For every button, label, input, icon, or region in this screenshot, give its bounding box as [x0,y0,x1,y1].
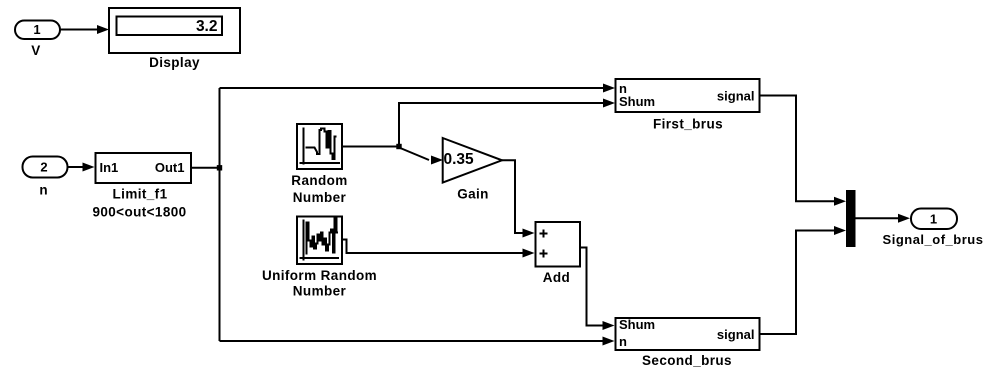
wire trunk to Second_brus n [220,340,604,342]
svg-text:Shum: Shum [619,317,655,332]
wire Uniform Random to Add input 2 [342,240,523,254]
wire trunk to First_brus n [220,87,604,89]
svg-text:Limit_f1: Limit_f1 [113,187,168,202]
block Uniform Random Number [297,217,342,265]
uniform random icon axes [300,220,340,261]
block Random Number [297,124,342,169]
node junction trunk [217,165,222,170]
svg-text:n: n [39,183,48,198]
svg-text:Uniform Random: Uniform Random [262,268,377,283]
wire mux to output port [856,217,899,219]
svg-text:1: 1 [930,212,937,227]
wire V to Display [60,29,98,31]
wire Gain to Add input 1 [502,160,523,233]
svg-text:1: 1 [33,22,40,37]
svg-text:In1: In1 [100,160,119,175]
gain block (0.35 triangle) [443,138,502,183]
svg-text:Signal_of_brus: Signal_of_brus [883,232,984,247]
display block [109,8,240,53]
adder Add [536,222,581,267]
subsystem First_brus [616,79,760,112]
subsystem Limit_f1 [96,153,192,183]
svg-text:2: 2 [40,160,47,175]
wire Limit_f1 out to trunk junction [191,167,220,169]
wire junction diagonal to Gain [399,148,429,161]
svg-text:Second_brus: Second_brus [642,353,732,368]
mux bar [846,190,856,247]
random number icon waveform [306,129,337,160]
svg-text:Out1: Out1 [155,160,185,175]
svg-text:V: V [31,43,40,58]
svg-text:First_brus: First_brus [653,117,723,132]
svg-text:Display: Display [149,55,200,70]
node junction shum [396,144,401,149]
svg-text:signal: signal [717,327,755,342]
wire Second_brus signal to mux [760,231,835,335]
svg-text:3.2: 3.2 [196,18,218,35]
wire n to Limit_f1 [68,166,84,168]
wire First_brus signal to mux [760,96,835,202]
input port 2 (n) [23,157,68,178]
svg-text:900<out<1800: 900<out<1800 [92,205,186,220]
svg-text:0.35: 0.35 [444,151,475,168]
wire Add to Second_brus Shum [580,248,603,326]
wire trunk vertical [219,88,221,341]
plus sign 1 [540,230,548,238]
plus sign 2 [540,250,548,258]
svg-text:signal: signal [717,89,755,104]
input port 1 (V) [15,21,60,40]
svg-text:Gain: Gain [457,186,489,201]
svg-text:Add: Add [543,270,570,285]
svg-text:Shum: Shum [619,94,655,109]
wire junction up to First_brus Shum [399,103,604,147]
svg-text:n: n [619,334,627,349]
svg-text:Number: Number [293,284,347,299]
subsystem Second_brus [616,318,760,350]
random number icon axes [300,128,341,165]
wire Random Number to junction [342,146,399,148]
uniform random icon waveform [307,219,339,255]
svg-text:Random: Random [291,173,347,188]
svg-text:Number: Number [293,190,347,205]
output port 1 (Signal_of_brus) [911,209,957,230]
